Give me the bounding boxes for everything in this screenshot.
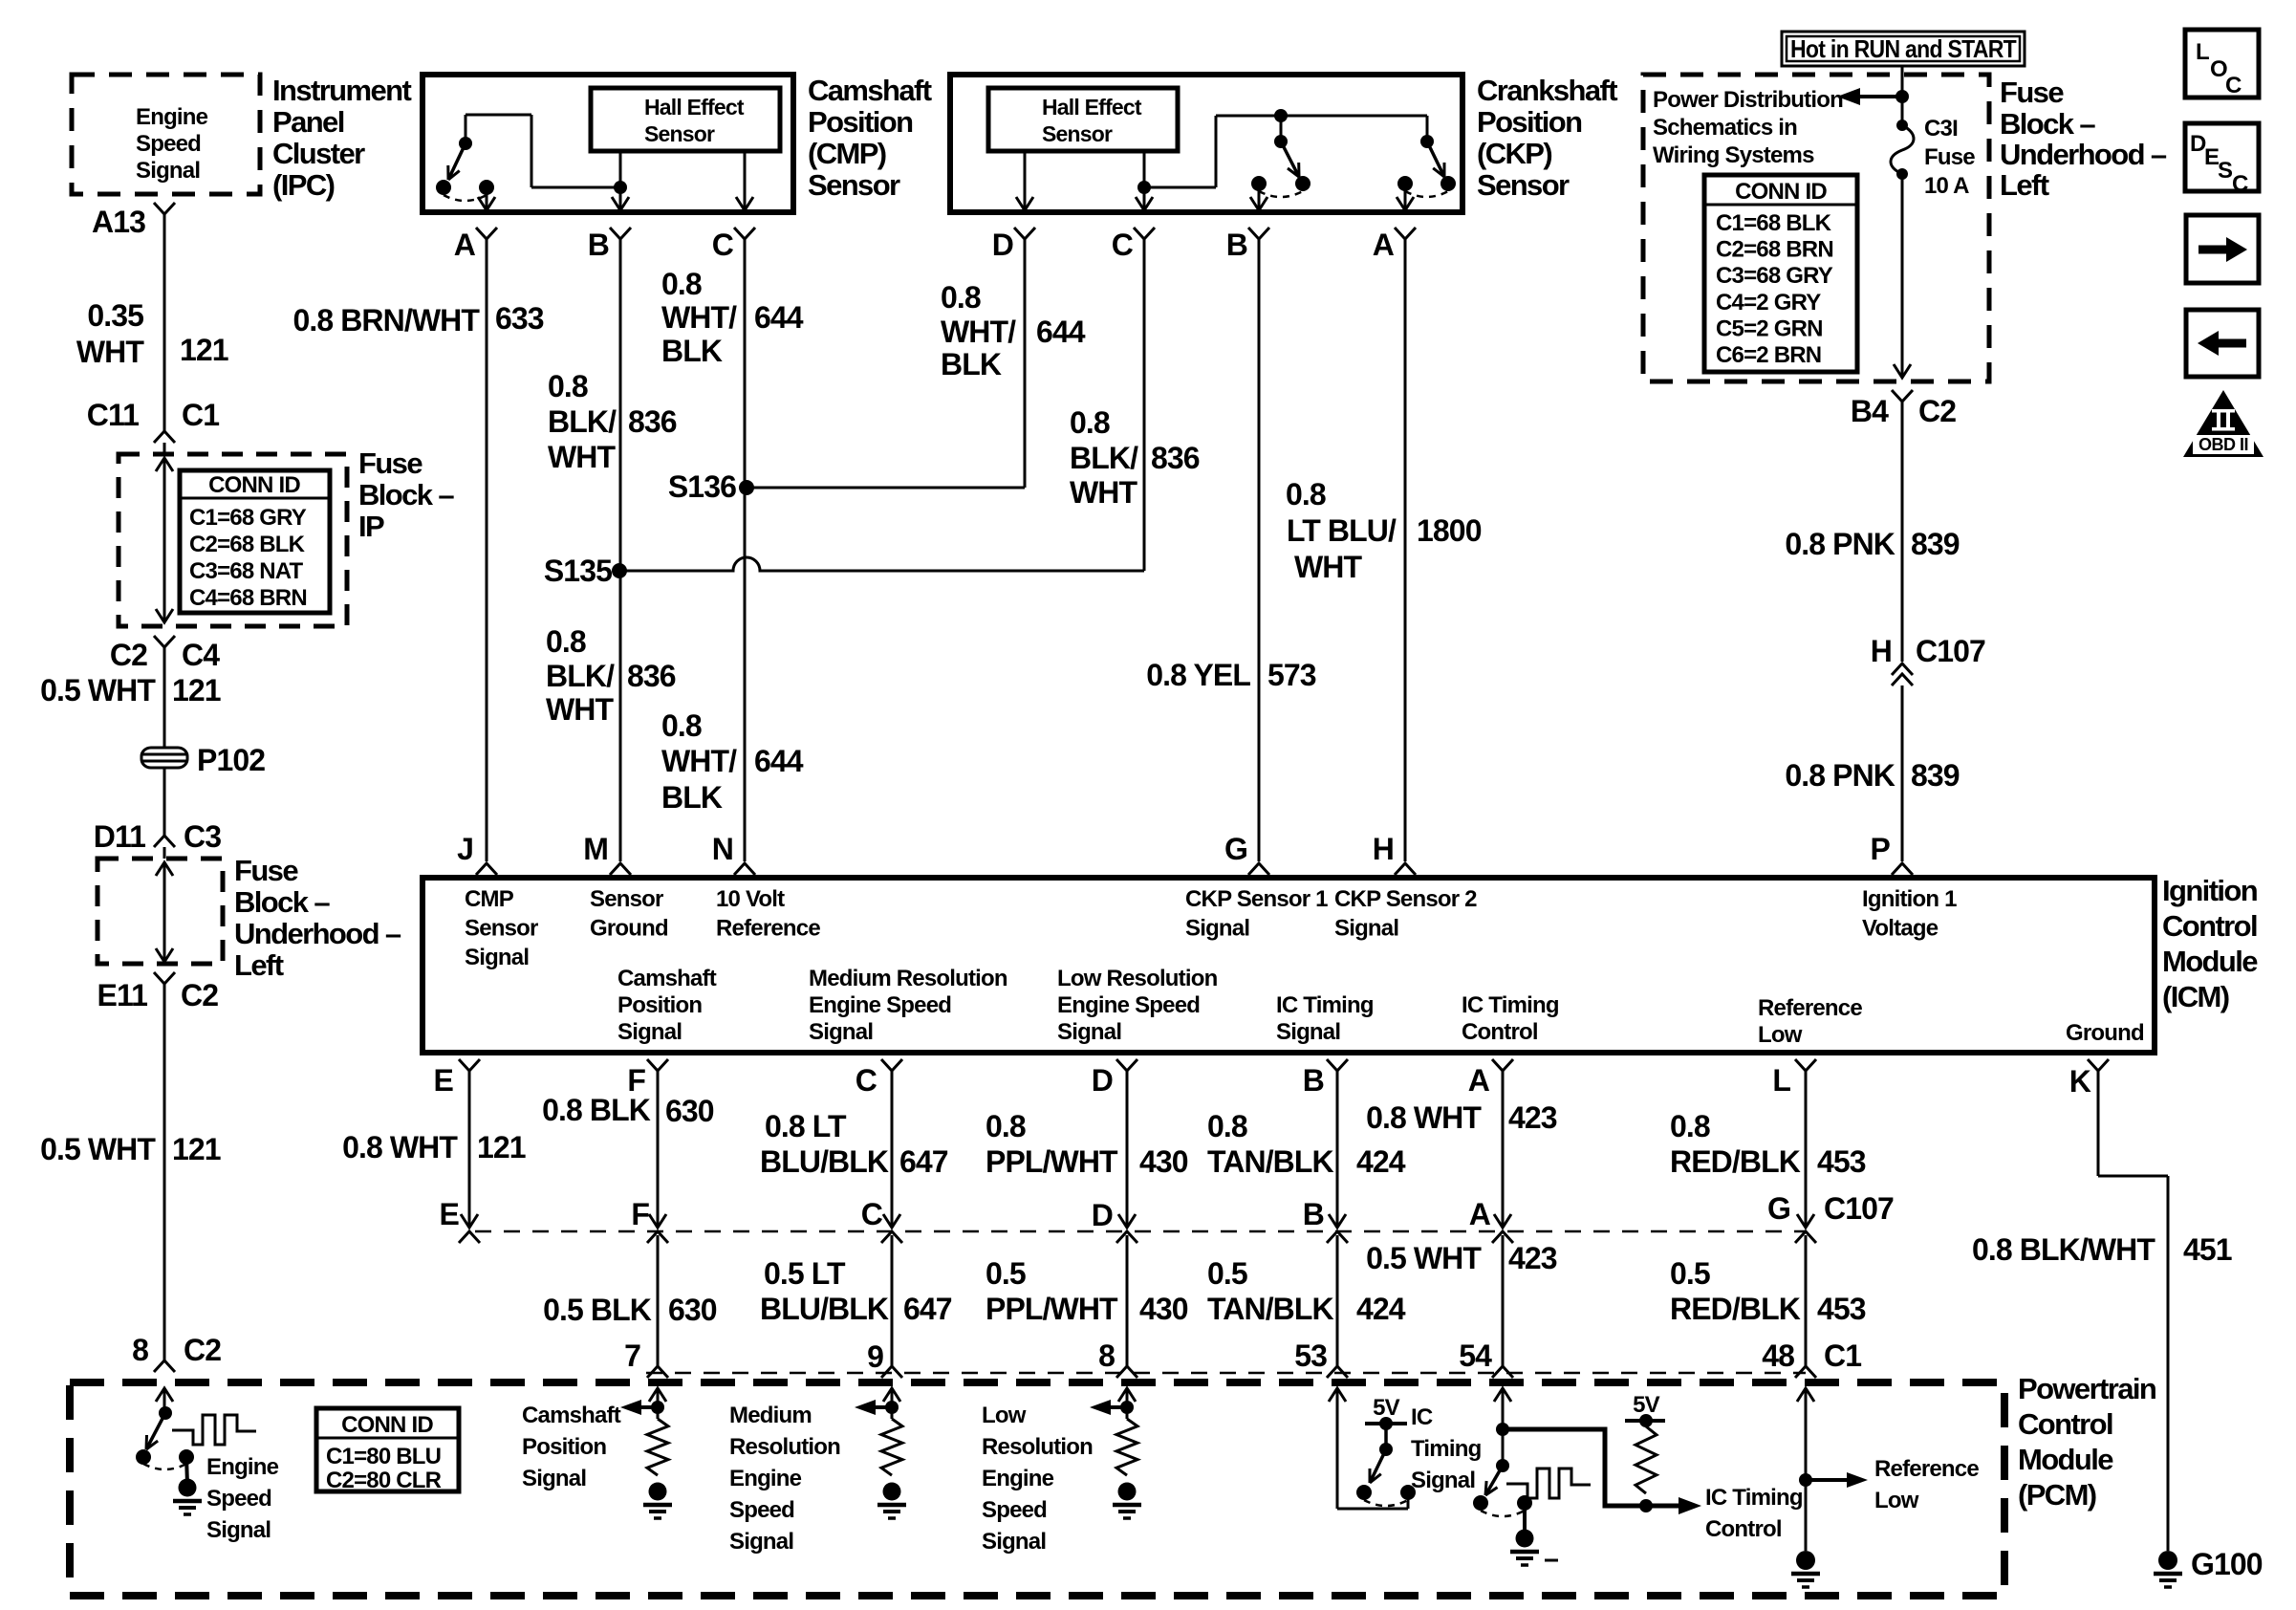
svg-text:C1=68 BLK: C1=68 BLK	[1716, 210, 1832, 236]
svg-text:5V: 5V	[1373, 1395, 1400, 1421]
svg-text:C2: C2	[181, 978, 218, 1012]
svg-text:8: 8	[132, 1333, 148, 1367]
svg-text:IC: IC	[1411, 1404, 1433, 1430]
svg-text:C107: C107	[1824, 1191, 1894, 1226]
svg-text:Fuse: Fuse	[2000, 76, 2064, 109]
svg-text:S135: S135	[544, 554, 612, 588]
svg-text:0.5 WHT: 0.5 WHT	[40, 1132, 156, 1166]
svg-text:C2: C2	[184, 1333, 221, 1367]
svg-text:453: 453	[1817, 1292, 1866, 1326]
svg-text:Signal: Signal	[617, 1019, 682, 1045]
svg-text:Sensor: Sensor	[808, 168, 900, 202]
svg-text:G: G	[1224, 832, 1247, 866]
svg-text:CONN ID: CONN ID	[1735, 179, 1827, 205]
svg-text:RED/BLK: RED/BLK	[1670, 1292, 1801, 1326]
svg-text:423: 423	[1508, 1241, 1557, 1275]
svg-text:644: 644	[754, 300, 804, 335]
svg-text:0.8: 0.8	[548, 369, 588, 403]
svg-text:WHT: WHT	[1070, 475, 1138, 510]
svg-text:Control: Control	[2162, 909, 2257, 943]
svg-text:Signal: Signal	[522, 1466, 586, 1491]
svg-text:IC Timing: IC Timing	[1705, 1485, 1803, 1511]
svg-text:BLU/BLK: BLU/BLK	[760, 1144, 889, 1179]
svg-text:0.35: 0.35	[87, 298, 143, 333]
svg-text:Block –: Block –	[358, 478, 454, 511]
svg-text:647: 647	[903, 1292, 952, 1326]
svg-text:Panel: Panel	[272, 105, 344, 139]
svg-text:836: 836	[628, 404, 677, 439]
svg-text:BLK: BLK	[661, 334, 723, 368]
svg-text:54: 54	[1459, 1338, 1492, 1373]
svg-text:Engine: Engine	[206, 1454, 279, 1480]
svg-text:Voltage: Voltage	[1862, 916, 1939, 942]
svg-text:Module: Module	[2018, 1443, 2113, 1476]
svg-text:Speed: Speed	[136, 131, 201, 157]
svg-text:F: F	[631, 1197, 649, 1231]
svg-text:Resolution: Resolution	[982, 1434, 1093, 1460]
svg-text:0.8 YEL: 0.8 YEL	[1146, 658, 1250, 692]
svg-text:(CMP): (CMP)	[808, 137, 886, 170]
svg-text:Speed: Speed	[729, 1497, 794, 1523]
svg-text:S136: S136	[668, 469, 736, 504]
svg-text:Left: Left	[2000, 168, 2049, 202]
svg-text:0.5 WHT: 0.5 WHT	[40, 673, 156, 707]
svg-text:IC Timing: IC Timing	[1462, 992, 1559, 1018]
svg-text:0.8 PNK: 0.8 PNK	[1785, 527, 1895, 561]
svg-text:Engine Speed: Engine Speed	[1057, 992, 1200, 1018]
svg-text:Hall Effect: Hall Effect	[644, 95, 745, 120]
svg-text:Fuse: Fuse	[234, 854, 298, 887]
svg-text:0.8 BLK: 0.8 BLK	[542, 1093, 651, 1127]
svg-text:Reference: Reference	[1874, 1456, 1979, 1482]
svg-text:B: B	[1303, 1197, 1324, 1231]
svg-text:836: 836	[627, 659, 676, 693]
svg-text:IC Timing: IC Timing	[1276, 992, 1374, 1018]
svg-text:CKP Sensor 2: CKP Sensor 2	[1334, 886, 1477, 912]
svg-text:BLU/BLK: BLU/BLK	[760, 1292, 889, 1326]
svg-text:0.5 WHT: 0.5 WHT	[1366, 1241, 1482, 1275]
svg-text:Signal: Signal	[465, 945, 529, 970]
svg-text:WHT: WHT	[1294, 550, 1363, 584]
svg-text:C1=68 GRY: C1=68 GRY	[189, 505, 307, 531]
svg-text:C2: C2	[110, 638, 147, 672]
svg-text:C1=80 BLU: C1=80 BLU	[326, 1444, 441, 1469]
svg-text:D: D	[992, 228, 1013, 262]
svg-text:0.8: 0.8	[941, 280, 981, 315]
svg-text:Left: Left	[234, 948, 284, 982]
svg-text:644: 644	[1036, 315, 1086, 349]
svg-text:Signal: Signal	[982, 1529, 1046, 1555]
svg-text:Engine: Engine	[136, 104, 208, 130]
svg-text:C3I: C3I	[1924, 116, 1958, 141]
svg-text:WHT/: WHT/	[941, 315, 1016, 349]
svg-text:Module: Module	[2162, 945, 2258, 978]
svg-text:0.8 PNK: 0.8 PNK	[1785, 758, 1895, 793]
svg-text:H: H	[1373, 832, 1394, 866]
svg-text:121: 121	[172, 673, 221, 707]
svg-text:Sensor: Sensor	[1042, 121, 1113, 146]
svg-text:C3=68 GRY: C3=68 GRY	[1716, 263, 1833, 289]
svg-text:0.5: 0.5	[1670, 1256, 1710, 1291]
svg-text:D: D	[1092, 1063, 1113, 1098]
svg-text:BLK/: BLK/	[548, 404, 617, 439]
svg-text:A: A	[1468, 1063, 1490, 1098]
svg-text:B: B	[1303, 1063, 1324, 1098]
svg-text:Position: Position	[808, 105, 913, 139]
svg-text:Medium Resolution: Medium Resolution	[809, 966, 1007, 991]
svg-text:Ground: Ground	[2066, 1020, 2144, 1046]
svg-text:Ground: Ground	[590, 916, 668, 942]
svg-text:C1: C1	[182, 398, 219, 432]
svg-text:0.5 LT: 0.5 LT	[764, 1256, 846, 1291]
svg-text:(CKP): (CKP)	[1477, 137, 1551, 170]
svg-text:121: 121	[180, 333, 228, 367]
svg-text:Engine Speed: Engine Speed	[809, 992, 951, 1018]
svg-text:Sensor: Sensor	[590, 886, 663, 912]
svg-text:Instrument: Instrument	[272, 74, 411, 107]
svg-text:G: G	[1767, 1191, 1790, 1226]
svg-text:Camshaft: Camshaft	[808, 74, 932, 107]
svg-text:Signal: Signal	[1411, 1468, 1475, 1493]
svg-text:Position: Position	[617, 992, 702, 1018]
svg-text:Low: Low	[1874, 1488, 1919, 1513]
svg-text:644: 644	[754, 744, 804, 778]
svg-text:M: M	[583, 832, 608, 866]
svg-text:453: 453	[1817, 1144, 1866, 1179]
svg-text:A13: A13	[92, 205, 145, 239]
svg-text:Underhood –: Underhood –	[234, 917, 401, 950]
svg-text:0.8: 0.8	[661, 267, 702, 301]
svg-text:D: D	[1092, 1198, 1113, 1232]
svg-text:Speed: Speed	[982, 1497, 1047, 1523]
svg-text:C5=2 GRN: C5=2 GRN	[1716, 315, 1823, 341]
svg-text:Wiring Systems: Wiring Systems	[1653, 142, 1814, 168]
svg-text:N: N	[712, 832, 733, 866]
svg-text:C: C	[712, 228, 734, 262]
svg-text:Underhood –: Underhood –	[2000, 138, 2167, 171]
svg-text:Fuse: Fuse	[1924, 144, 1975, 170]
svg-text:Sensor: Sensor	[644, 121, 715, 146]
svg-text:RED/BLK: RED/BLK	[1670, 1144, 1801, 1179]
svg-text:C: C	[861, 1197, 883, 1231]
svg-text:D11: D11	[94, 819, 145, 854]
svg-text:(PCM): (PCM)	[2018, 1478, 2096, 1512]
svg-text:10 Volt: 10 Volt	[716, 886, 785, 912]
svg-text:H: H	[1871, 634, 1892, 668]
svg-text:WHT/: WHT/	[661, 744, 737, 778]
svg-text:0.8: 0.8	[1207, 1109, 1247, 1143]
svg-text:0.5: 0.5	[986, 1256, 1026, 1291]
svg-text:Signal: Signal	[1334, 916, 1398, 942]
svg-text:Power Distribution: Power Distribution	[1653, 87, 1843, 113]
svg-text:Signal: Signal	[809, 1019, 873, 1045]
svg-text:Fuse: Fuse	[358, 446, 422, 480]
svg-text:A: A	[1373, 228, 1395, 262]
svg-text:E: E	[434, 1063, 454, 1098]
svg-text:CONN ID: CONN ID	[208, 472, 300, 498]
svg-text:Resolution: Resolution	[729, 1434, 840, 1460]
svg-text:TAN/BLK: TAN/BLK	[1207, 1292, 1334, 1326]
svg-text:0.8: 0.8	[546, 624, 586, 659]
svg-text:Sensor: Sensor	[1477, 168, 1570, 202]
svg-text:9: 9	[867, 1339, 883, 1374]
svg-text:A: A	[454, 228, 476, 262]
svg-text:Reference: Reference	[716, 916, 820, 942]
svg-text:Crankshaft: Crankshaft	[1477, 74, 1617, 107]
svg-text:C107: C107	[1916, 634, 1985, 668]
svg-text:Ignition 1: Ignition 1	[1862, 886, 1957, 912]
svg-text:0.8 BRN/WHT: 0.8 BRN/WHT	[292, 303, 480, 337]
svg-text:Signal: Signal	[1185, 916, 1249, 942]
svg-text:C: C	[2225, 73, 2242, 98]
svg-text:Engine: Engine	[982, 1466, 1054, 1491]
svg-text:Signal: Signal	[206, 1517, 271, 1543]
svg-text:Cluster: Cluster	[272, 137, 365, 170]
svg-text:L: L	[1772, 1063, 1790, 1098]
svg-text:C2=68 BLK: C2=68 BLK	[189, 532, 306, 557]
svg-text:0.8 LT: 0.8 LT	[765, 1109, 847, 1143]
svg-text:0.8 BLK/WHT: 0.8 BLK/WHT	[1972, 1232, 2155, 1267]
svg-text:B4: B4	[1851, 394, 1889, 428]
svg-text:A: A	[1469, 1197, 1491, 1231]
svg-text:G100: G100	[2191, 1547, 2263, 1581]
svg-text:Speed: Speed	[206, 1486, 271, 1512]
svg-text:WHT: WHT	[76, 335, 145, 369]
svg-text:451: 451	[2183, 1232, 2232, 1267]
svg-text:C6=2 BRN: C6=2 BRN	[1716, 342, 1821, 368]
svg-text:430: 430	[1139, 1144, 1188, 1179]
svg-text:121: 121	[172, 1132, 221, 1166]
svg-text:Signal: Signal	[1057, 1019, 1121, 1045]
svg-text:C4=68 BRN: C4=68 BRN	[189, 585, 307, 611]
svg-text:10 A: 10 A	[1924, 173, 1969, 199]
svg-text:Schematics in: Schematics in	[1653, 115, 1797, 141]
svg-text:836: 836	[1151, 441, 1200, 475]
svg-text:BLK: BLK	[661, 780, 723, 815]
svg-text:8: 8	[1098, 1338, 1115, 1373]
svg-text:BLK/: BLK/	[546, 659, 615, 693]
svg-text:Signal: Signal	[136, 158, 200, 184]
svg-text:C2=68 BRN: C2=68 BRN	[1716, 237, 1833, 263]
svg-text:424: 424	[1356, 1144, 1406, 1179]
svg-text:(ICM): (ICM)	[2162, 980, 2229, 1013]
svg-text:P102: P102	[197, 743, 265, 777]
svg-text:CKP Sensor 1: CKP Sensor 1	[1185, 886, 1328, 912]
svg-text:C: C	[856, 1063, 877, 1098]
svg-text:C2: C2	[1918, 394, 1956, 428]
svg-text:Signal: Signal	[1276, 1019, 1340, 1045]
svg-text:PPL/WHT: PPL/WHT	[986, 1292, 1118, 1326]
svg-text:J: J	[457, 832, 473, 866]
svg-text:CONN ID: CONN ID	[341, 1412, 433, 1438]
svg-text:E: E	[440, 1197, 460, 1231]
svg-text:PPL/WHT: PPL/WHT	[986, 1144, 1118, 1179]
svg-text:Control: Control	[1462, 1019, 1538, 1045]
svg-text:0.8: 0.8	[1070, 405, 1110, 440]
svg-text:839: 839	[1911, 758, 1960, 793]
svg-text:Hall Effect: Hall Effect	[1042, 95, 1142, 120]
svg-text:423: 423	[1508, 1100, 1557, 1135]
svg-text:Control: Control	[1705, 1516, 1782, 1542]
svg-text:53: 53	[1294, 1338, 1327, 1373]
svg-text:C4: C4	[182, 638, 220, 672]
svg-text:633: 633	[495, 301, 544, 336]
svg-text:S: S	[2218, 158, 2233, 184]
svg-text:1800: 1800	[1417, 513, 1482, 548]
svg-text:Ignition: Ignition	[2162, 874, 2258, 907]
svg-text:430: 430	[1139, 1292, 1188, 1326]
svg-text:C11: C11	[87, 398, 139, 432]
svg-text:Medium: Medium	[729, 1403, 812, 1428]
svg-text:B: B	[588, 228, 609, 262]
svg-text:WHT: WHT	[546, 692, 615, 727]
svg-text:E11: E11	[97, 978, 148, 1012]
svg-text:BLK: BLK	[941, 347, 1002, 381]
svg-text:Engine: Engine	[729, 1466, 802, 1491]
svg-text:0.8 WHT: 0.8 WHT	[342, 1130, 458, 1164]
svg-text:0.8: 0.8	[1286, 477, 1326, 511]
svg-text:647: 647	[899, 1144, 948, 1179]
svg-text:630: 630	[668, 1293, 717, 1327]
svg-text:0.8: 0.8	[661, 708, 702, 743]
svg-text:P: P	[1871, 832, 1891, 866]
svg-text:Hot in RUN and START: Hot in RUN and START	[1790, 34, 2017, 63]
svg-text:5V: 5V	[1633, 1392, 1660, 1418]
svg-text:Control: Control	[2018, 1407, 2112, 1441]
svg-text:TAN/BLK: TAN/BLK	[1207, 1144, 1334, 1179]
svg-text:C2=80 CLR: C2=80 CLR	[326, 1468, 442, 1493]
svg-text:Low: Low	[1758, 1022, 1803, 1048]
svg-text:C1: C1	[1824, 1338, 1861, 1373]
svg-text:424: 424	[1356, 1292, 1406, 1326]
svg-text:Position: Position	[522, 1434, 606, 1460]
svg-text:121: 121	[477, 1130, 526, 1164]
svg-text:IP: IP	[358, 510, 384, 543]
svg-text:Low: Low	[982, 1403, 1027, 1428]
svg-text:Low Resolution: Low Resolution	[1057, 966, 1218, 991]
svg-text:Block –: Block –	[2000, 107, 2095, 141]
svg-text:Camshaft: Camshaft	[617, 966, 717, 991]
svg-text:Block –: Block –	[234, 885, 330, 919]
svg-text:Reference: Reference	[1758, 995, 1862, 1021]
svg-text:Timing: Timing	[1411, 1436, 1482, 1462]
svg-text:Powertrain: Powertrain	[2018, 1372, 2156, 1405]
svg-text:WHT: WHT	[548, 440, 617, 474]
svg-text:839: 839	[1911, 527, 1960, 561]
svg-text:0.5: 0.5	[1207, 1256, 1247, 1291]
svg-text:L: L	[2196, 39, 2209, 65]
svg-text:7: 7	[624, 1338, 640, 1373]
svg-text:C3=68 NAT: C3=68 NAT	[189, 558, 304, 584]
svg-text:0.5 BLK: 0.5 BLK	[543, 1293, 652, 1327]
svg-text:0.8: 0.8	[986, 1109, 1026, 1143]
svg-text:0.8 WHT: 0.8 WHT	[1366, 1100, 1482, 1135]
svg-text:OBD II: OBD II	[2199, 435, 2248, 454]
svg-text:(IPC): (IPC)	[272, 168, 335, 202]
svg-text:CMP: CMP	[465, 886, 514, 912]
svg-text:C3: C3	[184, 819, 221, 854]
svg-text:573: 573	[1267, 658, 1316, 692]
svg-text:Signal: Signal	[729, 1529, 793, 1555]
svg-text:Sensor: Sensor	[465, 916, 538, 942]
svg-text:Camshaft: Camshaft	[522, 1403, 621, 1428]
svg-text:C: C	[2232, 171, 2248, 197]
svg-text:LT BLU/: LT BLU/	[1287, 513, 1397, 548]
svg-text:WHT/: WHT/	[661, 300, 737, 335]
svg-text:0.8: 0.8	[1670, 1109, 1710, 1143]
svg-text:C4=2 GRY: C4=2 GRY	[1716, 290, 1821, 315]
svg-text:48: 48	[1762, 1338, 1794, 1373]
svg-text:C: C	[1112, 228, 1134, 262]
svg-text:Position: Position	[1477, 105, 1582, 139]
svg-text:B: B	[1226, 228, 1247, 262]
svg-text:BLK/: BLK/	[1070, 441, 1138, 475]
svg-text:K: K	[2069, 1064, 2091, 1099]
svg-text:630: 630	[665, 1094, 714, 1128]
